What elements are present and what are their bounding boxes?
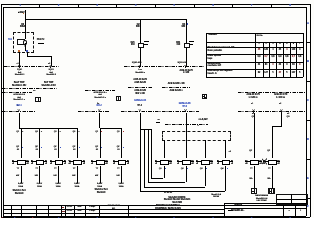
main bus 10kV xyxy=(25,19,187,20)
connector E3 xyxy=(138,109,141,111)
label right of relay box xyxy=(37,39,46,42)
wire through relay box xyxy=(24,43,27,51)
switch tick in relay box xyxy=(24,43,27,46)
interface line 2 seg b xyxy=(78,111,110,112)
connector E1 xyxy=(17,109,20,111)
label above connector E4 xyxy=(179,103,191,108)
group1 feeder labels xyxy=(14,131,19,134)
interface line 1 right segment xyxy=(124,66,204,67)
label below interface 3 xyxy=(194,125,202,128)
titleblock right divider xyxy=(223,203,226,216)
interface line 3 short xyxy=(165,124,208,125)
group1 bus xyxy=(19,127,78,130)
label left feeder B xyxy=(129,42,135,47)
manifold label xyxy=(155,119,162,122)
load table column heads xyxy=(256,43,261,46)
group4 tail labels xyxy=(247,168,253,171)
panel3 bottom labels xyxy=(157,192,179,195)
bars right feeder C xyxy=(189,41,194,42)
relay box output left wire xyxy=(18,51,21,67)
group2 feeder drops xyxy=(99,128,102,159)
group4 right wire upper xyxy=(280,113,283,126)
titleblock right rows xyxy=(224,207,306,210)
meter box 2 (black) xyxy=(268,188,274,194)
cable block C dash xyxy=(162,87,190,88)
label bottom feeder B xyxy=(130,62,144,65)
connector B xyxy=(138,65,141,67)
load table row labels xyxy=(208,47,255,52)
breaker QF2 on feeder B xyxy=(138,43,144,49)
titleblock column lines xyxy=(10,205,13,216)
interface line 2 seg a xyxy=(2,111,35,112)
wire inside relay box xyxy=(24,32,27,40)
cable text column Bx xyxy=(132,69,149,74)
cable block A text xyxy=(33,90,43,93)
top border zone numbers xyxy=(18,4,22,8)
titleblock small cells right xyxy=(282,203,285,216)
cable block B text xyxy=(88,92,112,100)
group2 incoming wire xyxy=(98,113,101,128)
orange junction dots xyxy=(18,50,19,51)
connector A1 xyxy=(18,65,21,67)
label left of relay box xyxy=(7,39,12,42)
manifold header xyxy=(140,128,152,131)
label bus left xyxy=(19,24,27,29)
group4 wire labels xyxy=(246,150,252,153)
group2 bus xyxy=(100,127,122,130)
interface line 2 seg c xyxy=(121,111,199,112)
label above panel 3 xyxy=(193,119,213,122)
right border zone dividers xyxy=(306,41,310,44)
load table values xyxy=(256,49,262,52)
titleblock revision cells xyxy=(62,207,65,208)
panel3 draw-out breakers xyxy=(155,160,171,163)
group2 feeder labels xyxy=(93,131,98,134)
panel3 tick near breaker4 xyxy=(229,151,235,154)
titleblock right top edge xyxy=(224,202,306,205)
load table grid xyxy=(206,32,303,35)
mini grid above titleblock xyxy=(276,194,308,204)
breaker QF3 on feeder C xyxy=(184,43,190,49)
group1 panel label xyxy=(11,190,28,195)
bundle horizontal runs xyxy=(140,190,225,193)
group4 caption xyxy=(246,195,277,203)
connector F2 xyxy=(280,109,283,111)
tie bowtie symbol xyxy=(262,158,268,165)
incoming feeder stub xyxy=(24,10,27,19)
group1 feeder drops xyxy=(20,128,23,158)
cable block C text xyxy=(163,83,189,86)
group2 feeder tails and labels xyxy=(99,166,102,183)
meter M1 xyxy=(17,39,25,45)
connector C xyxy=(184,65,187,67)
group2 draw-out breakers xyxy=(91,160,107,163)
group4 left wire upper xyxy=(253,113,256,158)
label bottom feeder C xyxy=(175,62,189,65)
panel3 stubs from enclosure xyxy=(163,140,166,158)
label above connector E3 xyxy=(133,100,148,103)
group3 caption xyxy=(160,197,194,205)
label feeder B top xyxy=(133,24,140,29)
group4 breaker 2 xyxy=(263,160,279,163)
top border zone dividers xyxy=(38,4,41,8)
cable text column A1 xyxy=(12,69,27,77)
connector A2 xyxy=(49,65,52,67)
cable block B dash xyxy=(85,90,115,91)
label left feeder C xyxy=(174,42,180,47)
label above connector E2 xyxy=(93,105,105,108)
titleblock doc number cell xyxy=(101,205,126,210)
connector F1 xyxy=(252,109,255,111)
label above connector E1 xyxy=(13,105,25,108)
manifold feeder wire xyxy=(139,113,142,130)
group2 panel label xyxy=(93,189,110,194)
group1 draw-out breakers xyxy=(12,160,28,163)
group1 feeder tails and labels xyxy=(20,166,23,183)
cable block A dashes xyxy=(2,88,57,89)
group4 breaker 1 xyxy=(245,160,261,163)
sheet border inner xyxy=(3,7,306,8)
bars right feeder B xyxy=(144,41,149,42)
titleblock row lines xyxy=(3,208,224,211)
bundle risers to breakers xyxy=(224,166,227,191)
cable text column C xyxy=(176,70,196,75)
relay box (dash-dot) xyxy=(13,32,35,53)
cable text column D1 xyxy=(244,94,263,99)
bundle vertical wires xyxy=(139,129,142,191)
panel3 enclosure (dash-dot) xyxy=(162,131,231,141)
interface line 2 seg d xyxy=(238,111,306,112)
cable text column D2 xyxy=(271,94,290,99)
relay icon C (black) xyxy=(202,94,207,99)
interface line 1 far right segment xyxy=(238,92,306,93)
titleblock stage cell xyxy=(228,205,233,206)
feeder B wire xyxy=(139,20,142,67)
group1 incoming wire xyxy=(18,113,21,129)
meter box 1 (black) xyxy=(251,188,257,194)
bottom border zone numbers (cut off) xyxy=(1,217,4,220)
connector E2 xyxy=(98,109,101,111)
label feeder C top xyxy=(179,24,186,29)
wire feeder A xyxy=(24,20,27,35)
load table header xyxy=(209,34,239,37)
panel3 breaker labels xyxy=(156,168,162,171)
interface line 1 left segment xyxy=(4,66,60,67)
relay icon B (black) xyxy=(116,96,122,101)
group4 tails xyxy=(253,166,256,188)
right border zone letters xyxy=(306,22,309,25)
cable text column A2 xyxy=(43,69,59,77)
titleblock project title xyxy=(131,205,205,211)
feeder C wire xyxy=(185,19,188,67)
relay box output right wire xyxy=(26,51,29,57)
panel3 feeder through wire xyxy=(185,113,188,159)
relay icon A (black) xyxy=(35,97,41,102)
connector E4 xyxy=(184,109,187,111)
label incoming feeder xyxy=(17,12,25,15)
sheet border outer xyxy=(1,3,310,6)
titleblock top edge xyxy=(3,204,305,207)
